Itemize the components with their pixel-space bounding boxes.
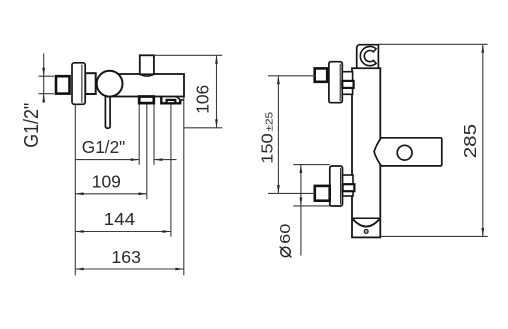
arrow up to 93.7 <box>42 94 45 102</box>
dimension G1/2 left: ticks <box>38 75 54 77</box>
spout <box>161 96 180 103</box>
screw hole <box>364 230 368 234</box>
dimension G1/2 left: line <box>43 54 45 103</box>
bottom connection: hex nut <box>343 175 353 196</box>
svg-text:109: 109 <box>92 172 121 192</box>
bottom escutcheon shading line <box>340 168 342 205</box>
dimension G1/2 bottom: line right part <box>154 159 177 161</box>
svg-text:144: 144 <box>104 209 136 229</box>
lever hole <box>397 145 412 160</box>
wall flange <box>72 63 85 105</box>
top connection: hex nut facet <box>342 81 353 88</box>
top connection: hex nut <box>342 72 352 95</box>
top escutcheon shading line <box>339 64 341 102</box>
seam arc under top outlet <box>141 75 154 77</box>
dimension 150±25: top extension / pipe <box>268 75 316 77</box>
dimension 150±25: bottom extension / pipe <box>268 192 315 194</box>
svg-text:G1/2": G1/2" <box>82 137 126 157</box>
spout diagonal <box>176 96 184 100</box>
connector between flange and ball <box>85 73 96 94</box>
label 150±25 (rotated) <box>259 112 276 164</box>
bottom outlet G1/2 <box>139 97 154 104</box>
dimension 106: line <box>216 55 218 128</box>
inlet nipple G1/2 <box>56 76 70 93</box>
svg-text:±25: ±25 <box>264 112 275 132</box>
arrow down to 76.2 <box>42 68 45 76</box>
svg-text:285: 285 <box>461 124 480 158</box>
C hook <box>360 47 376 66</box>
dimension 285: line <box>482 44 484 236</box>
wire: extension line outlet left edge <box>138 103 140 165</box>
ball knob <box>97 71 123 97</box>
wire: extension line outlet right edge <box>153 103 155 165</box>
svg-text:150: 150 <box>259 133 276 163</box>
column body <box>352 68 380 237</box>
dimension 109 <box>75 193 147 195</box>
dimension 106: top extension <box>154 54 222 56</box>
wire: left extension line from flange bottom <box>74 105 76 276</box>
top connection: escutcheon <box>329 62 342 103</box>
dimension 163 <box>75 268 184 270</box>
bottom connection: escutcheon <box>330 166 343 206</box>
wire: extension line aerator center <box>170 104 172 237</box>
dimension ±25 range: line <box>300 165 302 256</box>
body (mixer) <box>110 74 184 97</box>
shower hook bracket <box>357 45 379 68</box>
dimension 285: top extension <box>378 43 487 45</box>
wire: extension line outlet center <box>146 103 148 199</box>
svg-text:60: 60 <box>278 224 294 244</box>
dimension 106: bottom extension <box>184 127 223 129</box>
aerator <box>167 100 176 103</box>
dimension G1/2 bottom: line left part <box>75 159 139 161</box>
svg-text:G1/2": G1/2" <box>21 103 43 148</box>
svg-text:163: 163 <box>111 247 140 267</box>
bottom connection: hex nut facet <box>343 184 355 191</box>
dimension 285: bottom extension <box>380 235 487 237</box>
svg-text:106: 106 <box>193 85 213 114</box>
lever handle <box>105 93 110 128</box>
label ø60 (rotated) <box>278 224 294 258</box>
bottom connection: eccentric lines <box>293 164 330 166</box>
dimension 150±25: line <box>277 76 279 194</box>
holder seam line <box>352 217 380 219</box>
holder cup arc <box>352 219 380 227</box>
dimension 144 <box>75 231 171 233</box>
wire: extension line body right edge <box>183 97 185 276</box>
lever arm (side) <box>374 138 442 166</box>
top outlet <box>140 55 154 74</box>
top connection: square nut <box>315 68 328 81</box>
bottom connection: square nut <box>315 186 330 201</box>
flange shading line <box>81 65 83 103</box>
